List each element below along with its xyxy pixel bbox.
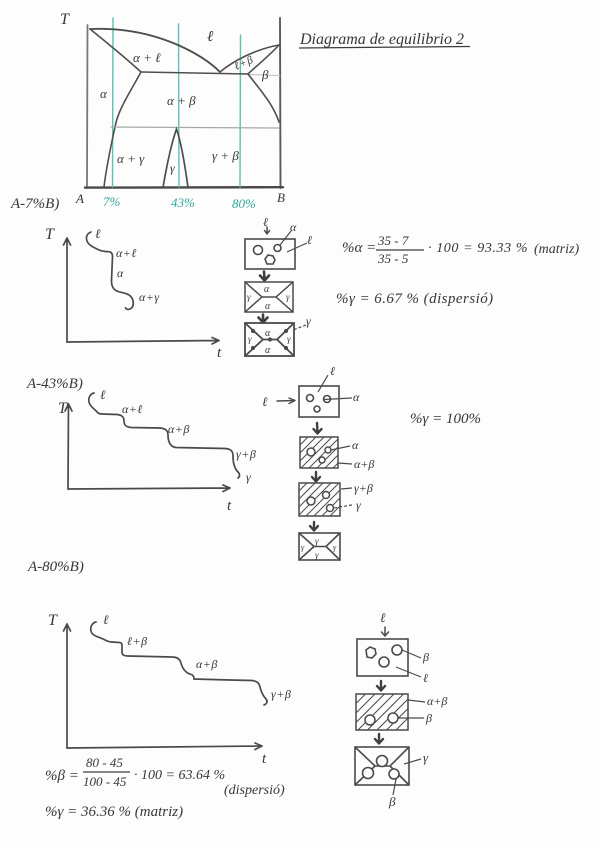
svg-text:γ: γ [306, 314, 311, 328]
leader to L label [287, 243, 307, 252]
svg-text:7%: 7% [103, 194, 121, 209]
svg-text:43%: 43% [171, 195, 195, 210]
svg-text:· 100 = 63.64 %: · 100 = 63.64 % [134, 768, 225, 783]
down arrow [312, 472, 320, 482]
svg-text:γ: γ [315, 536, 319, 546]
svg-text:γ: γ [247, 292, 251, 302]
leader gamma [404, 759, 421, 764]
title underline [299, 47, 470, 49]
svg-text:80 - 45: 80 - 45 [86, 755, 123, 770]
svg-text:A: A [75, 191, 84, 206]
cooling curve 1 [86, 232, 133, 309]
svg-text:(matriz): (matriz) [534, 242, 579, 257]
svg-text:γ: γ [423, 750, 429, 765]
svg-text:α: α [265, 328, 271, 339]
svg-text:γ: γ [356, 498, 361, 512]
svg-text:A-80%B): A-80%B) [27, 559, 84, 575]
teal composition line 7% [112, 18, 115, 187]
eutectic isotherm [141, 72, 248, 74]
svg-text:γ: γ [287, 334, 291, 344]
right axis B [279, 18, 282, 188]
svg-text:100 - 45: 100 - 45 [83, 774, 127, 789]
down arrow [377, 681, 385, 691]
svg-text:%γ = 6.67 % (dispersió): %γ = 6.67 % (dispersió) [336, 291, 494, 307]
cooling curve 2 [89, 393, 240, 478]
svg-text:ℓ: ℓ [262, 394, 268, 409]
bottom axis [85, 186, 283, 189]
solidus right branch [248, 45, 279, 74]
svg-text:β: β [261, 67, 269, 82]
left axis [86, 25, 89, 188]
svg-text:ℓ+β: ℓ+β [127, 634, 148, 648]
svg-text:T: T [58, 400, 68, 417]
down arrow [314, 423, 322, 434]
svg-text:T: T [45, 226, 55, 243]
micro box 1 sec3 [357, 639, 421, 677]
svg-text:α: α [265, 345, 271, 356]
svg-text:γ+β: γ+β [236, 447, 256, 461]
svg-text:α + ℓ: α + ℓ [133, 50, 161, 65]
leader alpha+beta [408, 700, 425, 702]
svg-text:ℓ: ℓ [423, 671, 428, 685]
micro box 1 sec2 [299, 375, 352, 417]
micro box 4 sec2 (envelope gamma) [299, 533, 340, 560]
micro box 3 sec3 (envelope + beta circles) [355, 747, 421, 795]
svg-text:α+β: α+β [427, 694, 447, 708]
t axis with arrow [68, 485, 230, 492]
leader gamma+beta [341, 488, 352, 489]
T axis with arrow [65, 404, 72, 489]
svg-text:α: α [265, 301, 271, 312]
svg-text:γ+β: γ+β [354, 481, 373, 495]
dashed leader to gamma [293, 325, 306, 330]
svg-text:T: T [60, 11, 70, 28]
t axis with arrow [67, 743, 262, 750]
liquidus left branch [90, 29, 220, 72]
leader beta [398, 717, 424, 719]
svg-text:α: α [100, 86, 108, 101]
micro box 3 (envelope + gamma precipitates) [245, 323, 306, 356]
svg-text:α: α [264, 284, 270, 295]
svg-text:A-43%B): A-43%B) [26, 376, 83, 392]
leader to alpha label [280, 231, 291, 245]
svg-text:ℓ: ℓ [100, 387, 106, 402]
down arrow [375, 734, 383, 744]
svg-text:%γ = 36.36 % (matriz): %γ = 36.36 % (matriz) [45, 804, 183, 820]
t axis with arrow [67, 338, 219, 345]
leader gamma dashed [334, 505, 352, 508]
svg-text:γ: γ [286, 292, 290, 302]
leader beta [393, 779, 396, 795]
svg-text:ℓ: ℓ [330, 364, 335, 378]
svg-text:γ: γ [248, 334, 252, 344]
svg-text:α+β: α+β [354, 457, 374, 471]
teal composition line 80% [239, 35, 242, 187]
micro box 2 sec3 (hatched) [356, 694, 425, 730]
svg-text:ℓ: ℓ [380, 610, 386, 625]
leader L [396, 667, 421, 677]
solidus left branch [90, 29, 141, 72]
svg-text:α+γ: α+γ [139, 290, 160, 304]
svg-text:%α =: %α = [342, 240, 376, 256]
down arrow [310, 522, 318, 531]
micro box 2 (eutectoid envelope) [245, 282, 293, 312]
leader beta [402, 650, 421, 658]
svg-text:α + β: α + β [167, 93, 196, 108]
down arrow 2 [259, 315, 268, 323]
beta solvus boundary [248, 74, 279, 122]
svg-text:ℓ: ℓ [95, 226, 101, 241]
svg-text:β: β [388, 794, 396, 809]
svg-text:α+β: α+β [196, 657, 218, 671]
svg-text:Diagrama de equilibrio 2: Diagrama de equilibrio 2 [299, 31, 464, 48]
svg-text:%β =: %β = [45, 768, 79, 784]
svg-text:ℓ: ℓ [103, 612, 109, 627]
svg-text:35 - 5: 35 - 5 [377, 251, 409, 266]
teal composition line 43% [178, 24, 181, 187]
svg-text:γ: γ [170, 161, 175, 175]
down arrow 1 [260, 272, 269, 281]
svg-text:· 100 = 93.33 %: · 100 = 93.33 % [428, 241, 528, 256]
gamma lens [163, 129, 188, 188]
svg-text:α + γ: α + γ [117, 151, 145, 166]
leader alpha+beta [338, 463, 352, 464]
svg-text:α: α [290, 220, 297, 234]
svg-text:%γ = 100%: %γ = 100% [410, 411, 481, 427]
svg-text:T: T [48, 612, 58, 629]
svg-text:γ: γ [246, 470, 251, 484]
svg-text:35 - 7: 35 - 7 [377, 233, 409, 248]
svg-text:γ+β: γ+β [271, 687, 291, 701]
leader alpha [331, 446, 350, 450]
svg-text:ℓ: ℓ [207, 29, 213, 45]
faint isotherm extension to B axis [248, 75, 280, 76]
svg-text:B: B [277, 190, 285, 205]
svg-text:γ + β: γ + β [212, 148, 239, 163]
svg-text:γ: γ [315, 550, 319, 560]
svg-text:ℓ: ℓ [307, 233, 312, 247]
svg-text:α+β: α+β [168, 422, 190, 436]
svg-text:α+ℓ: α+ℓ [122, 402, 143, 416]
eutectoid isotherm (light) [111, 127, 279, 128]
svg-text:α: α [353, 390, 360, 404]
T axis with arrow [64, 624, 71, 748]
svg-text:A-7%B): A-7%B) [10, 196, 59, 212]
micro box 2 sec2 (hatched alpha+beta) [300, 437, 352, 468]
micro box 3 sec2 (hatched gamma+beta) [299, 483, 352, 516]
leader from circle to alpha [324, 398, 353, 400]
svg-text:α: α [117, 266, 124, 280]
svg-text:α: α [352, 438, 359, 452]
svg-text:β: β [425, 711, 432, 725]
svg-text:α+ℓ: α+ℓ [116, 246, 137, 260]
svg-text:(dispersió): (dispersió) [224, 783, 285, 798]
liquidus right branch [220, 45, 279, 72]
leader from L label [318, 375, 328, 392]
cooling curve 3 [91, 622, 267, 705]
T axis with arrow [64, 238, 71, 342]
svg-text:β: β [422, 650, 429, 664]
alpha solvus boundary [104, 72, 141, 187]
svg-text:80%: 80% [232, 196, 256, 211]
micro box 1 (liquid + alpha grains) [245, 231, 307, 269]
